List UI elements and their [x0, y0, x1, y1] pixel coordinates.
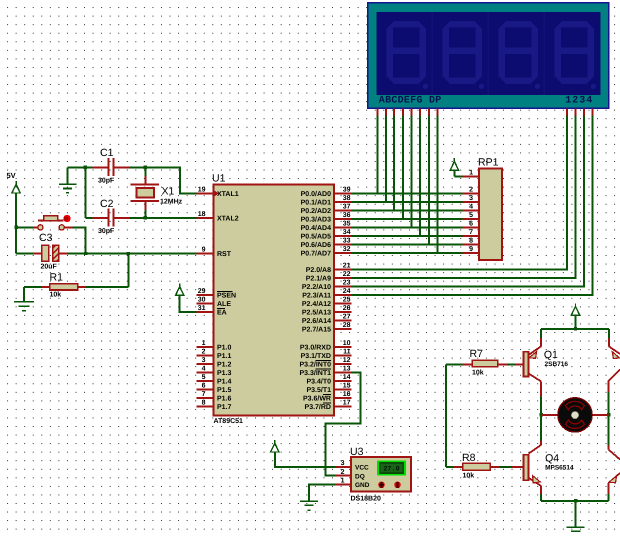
- svg-text:P1.2: P1.2: [217, 362, 232, 369]
- svg-text:RST: RST: [217, 251, 232, 258]
- wire 5V rail down: [15, 193, 17, 254]
- wire RST row: [16, 253, 33, 255]
- capacitor C2: [85, 217, 92, 219]
- RP1 pin 5: [462, 218, 479, 220]
- svg-text:13: 13: [343, 366, 351, 373]
- svg-text:1: 1: [341, 478, 345, 485]
- U1 pin 34 P0.5/AD5: [334, 235, 351, 237]
- U3 buttons: [378, 482, 385, 489]
- Q1 emitter arrow (PNP): [529, 352, 537, 359]
- svg-text:P3.1/TXD: P3.1/TXD: [301, 352, 331, 360]
- wire top rail: [541, 328, 609, 330]
- svg-text:X1: X1: [162, 186, 175, 198]
- U1 pin 38 P0.1/AD1: [334, 201, 351, 203]
- RP1 pin 3: [462, 201, 479, 203]
- svg-text:P1.6: P1.6: [217, 396, 232, 403]
- U1 pin 22 P2.1/A9: [334, 277, 351, 279]
- svg-text:21: 21: [343, 263, 351, 270]
- svg-text:20uF: 20uF: [41, 264, 58, 271]
- svg-text:R7: R7: [470, 348, 484, 360]
- svg-text:U3: U3: [350, 446, 364, 458]
- svg-text:P2.2/A10: P2.2/A10: [302, 283, 331, 291]
- svg-text:5: 5: [202, 374, 206, 381]
- svg-text:P3.0/RXD: P3.0/RXD: [300, 344, 331, 352]
- button SW row wire left: [16, 226, 33, 228]
- svg-text:R1: R1: [50, 272, 64, 284]
- svg-text:DQ: DQ: [355, 473, 365, 480]
- power arrow 5V: [12, 181, 20, 193]
- U1 pin 30 ALE: [196, 303, 213, 305]
- U1 pin 15 P3.5/T1: [334, 388, 351, 390]
- svg-text:EA: EA: [217, 310, 227, 317]
- wire EA to power: [180, 295, 197, 312]
- svg-text:4: 4: [469, 204, 473, 211]
- svg-text:P3.2/INT0: P3.2/INT0: [299, 361, 331, 369]
- wire P2.3 to digit 4: [351, 115, 592, 295]
- svg-text:32: 32: [343, 246, 351, 253]
- svg-text:22: 22: [343, 271, 351, 278]
- button terminals: [34, 226, 38, 228]
- svg-text:30pF: 30pF: [98, 228, 115, 235]
- transistor Q1 base bar: [524, 352, 529, 377]
- RP1 pin 1: [462, 176, 479, 178]
- wire button to RST row: [73, 227, 86, 253]
- svg-text:RP1: RP1: [478, 157, 499, 169]
- svg-text:GND: GND: [355, 482, 370, 489]
- display digits: [387, 21, 426, 84]
- svg-text:P1.4: P1.4: [217, 379, 232, 386]
- svg-text:27: 27: [343, 314, 351, 321]
- U1 pin 26 P2.5/A13: [334, 311, 351, 313]
- svg-text:2: 2: [341, 469, 345, 476]
- U1 pin 19 XTAL1: [196, 193, 213, 195]
- capacitor C1: [93, 166, 108, 168]
- power arrow for RP1: [450, 158, 458, 170]
- svg-text:19: 19: [198, 187, 206, 194]
- motor M1: [558, 398, 592, 432]
- svg-text:C1: C1: [100, 147, 114, 159]
- U1 pin 17 P3.7/RD: [334, 405, 351, 407]
- capacitor C3: [42, 245, 49, 261]
- U1 pin 29 PSEN: [196, 294, 213, 296]
- U1 pin 6 P1.5: [196, 388, 213, 390]
- U1 pin 37 P0.2/AD2: [334, 210, 351, 212]
- U3 DS18B20 body: [351, 457, 411, 492]
- U1 pin 39 P0.0/AD0: [334, 193, 351, 195]
- display LED1 7SEG-MPX4 frame: [368, 3, 609, 108]
- RP1 pin 6: [462, 227, 479, 229]
- svg-text:P0.6/AD6: P0.6/AD6: [301, 241, 331, 249]
- svg-text:12: 12: [343, 357, 351, 364]
- svg-text:37: 37: [343, 204, 351, 211]
- wire segment F to P0.5: [419, 115, 421, 237]
- RP1 pin 4: [462, 210, 479, 212]
- svg-text:9: 9: [202, 247, 206, 254]
- U1 pin 1 P1.0: [196, 346, 213, 348]
- svg-text:P2.7/A15: P2.7/A15: [302, 326, 331, 334]
- wire P0.2 row: [351, 210, 462, 212]
- svg-text:17: 17: [343, 400, 351, 407]
- svg-text:PSEN: PSEN: [217, 293, 236, 300]
- U1 pin 25 P2.4/A12: [334, 303, 351, 305]
- svg-text:18: 18: [198, 211, 206, 218]
- svg-text:MPS6514: MPS6514: [545, 465, 574, 472]
- crystal X1: [144, 167, 146, 176]
- svg-text:P0.2/AD2: P0.2/AD2: [301, 207, 331, 215]
- wire RP1 pin1 to power: [453, 170, 455, 176]
- RP1 pin 9: [462, 252, 479, 254]
- svg-text:P2.4/A12: P2.4/A12: [302, 300, 331, 308]
- svg-text:R8: R8: [462, 452, 476, 464]
- wire P0.6 row: [351, 244, 462, 246]
- U1 pin 5 P1.4: [196, 380, 213, 382]
- wire C1 row: [67, 166, 92, 168]
- U1 pin 2 P1.1: [196, 354, 213, 356]
- U1 pin 14 P3.4/T0: [334, 380, 351, 382]
- wire segment C to P0.2: [393, 115, 395, 211]
- resistor R1: [24, 286, 42, 288]
- wire power to top rail: [575, 315, 577, 329]
- svg-text:Q1: Q1: [544, 349, 558, 361]
- U1 pin 27 P2.6/A14: [334, 320, 351, 322]
- U1 pin 32 P0.7/AD7: [334, 252, 351, 254]
- wire segment DP to P0.7: [436, 115, 438, 254]
- svg-text:C3: C3: [39, 232, 53, 244]
- svg-text:30: 30: [198, 297, 206, 304]
- svg-text:14: 14: [343, 374, 351, 381]
- svg-text:25: 25: [343, 297, 351, 304]
- svg-text:7: 7: [202, 391, 206, 398]
- power arrow EA: [176, 284, 184, 296]
- resistor pack RP1 body: [479, 169, 502, 261]
- svg-text:P0.7/AD7: P0.7/AD7: [301, 250, 331, 258]
- RP1 pin 2: [462, 193, 479, 195]
- svg-text:P3.4/T0: P3.4/T0: [306, 378, 331, 386]
- button actuator: [38, 220, 63, 222]
- svg-text:P3.7/RD: P3.7/RD: [305, 403, 331, 411]
- svg-text:9: 9: [469, 246, 473, 253]
- U1 pin 16 P3.6/WR: [334, 397, 351, 399]
- svg-text:15: 15: [343, 383, 351, 390]
- svg-text:23: 23: [343, 280, 351, 287]
- svg-text:5: 5: [469, 212, 473, 219]
- svg-text:DS18B20: DS18B20: [351, 496, 381, 503]
- wire Q1 emitter: [540, 329, 542, 338]
- U3 LCD readout: [378, 461, 405, 474]
- svg-text:3: 3: [341, 460, 345, 467]
- svg-text:XTAL1: XTAL1: [217, 191, 239, 198]
- wire Q4 collector up to motor row: [540, 415, 542, 441]
- svg-text:4: 4: [202, 366, 206, 373]
- svg-text:P2.1/A9: P2.1/A9: [306, 275, 331, 283]
- svg-text:34: 34: [343, 229, 351, 236]
- ground bridge: [575, 501, 577, 527]
- svg-text:39: 39: [343, 187, 351, 194]
- wire segment D to P0.3: [402, 115, 404, 220]
- svg-text:P0.3/AD3: P0.3/AD3: [301, 216, 331, 224]
- svg-text:P1.7: P1.7: [217, 404, 232, 411]
- U1 pin 23 P2.2/A10: [334, 286, 351, 288]
- resistor R7: [446, 363, 462, 365]
- wire P3.3 to U3 DQ: [326, 372, 361, 475]
- svg-text:26: 26: [343, 305, 351, 312]
- svg-text:6: 6: [469, 221, 473, 228]
- svg-text:P2.6/A14: P2.6/A14: [302, 317, 331, 325]
- U1 pin 8 P1.7: [196, 405, 213, 407]
- wire P0.3 row: [351, 218, 462, 220]
- wire P0.0 row: [351, 193, 462, 195]
- svg-text:30pF: 30pF: [98, 178, 115, 185]
- U1 pin 4 P1.3: [196, 371, 213, 373]
- U1 pin 31 EA: [196, 311, 213, 313]
- svg-text:C2: C2: [100, 198, 114, 210]
- svg-text:6: 6: [202, 383, 206, 390]
- svg-text:P0.5/AD5: P0.5/AD5: [301, 233, 331, 241]
- svg-text:11: 11: [343, 349, 351, 356]
- display pins: [377, 109, 592, 116]
- svg-text:P1.5: P1.5: [217, 387, 232, 394]
- U1 pin 10 P3.0/RXD: [334, 346, 351, 348]
- svg-text:36: 36: [343, 212, 351, 219]
- U3 pins: [335, 466, 351, 468]
- RP1 pin 8: [462, 244, 479, 246]
- svg-text:38: 38: [343, 195, 351, 202]
- power arrow U3 VCC: [271, 440, 279, 452]
- ground below R1: [23, 287, 25, 302]
- svg-text:2SB716: 2SB716: [545, 361, 569, 368]
- U1 pin 13 P3.3/INT1: [334, 371, 351, 373]
- svg-text:1: 1: [469, 170, 473, 177]
- svg-text:10k: 10k: [50, 291, 62, 299]
- svg-text:P0.1/AD1: P0.1/AD1: [301, 199, 331, 207]
- U1 pin 3 P1.2: [196, 363, 213, 365]
- motor leads: [541, 414, 558, 416]
- wire U3 GND: [309, 484, 335, 501]
- U1 pin 33 P0.6/AD6: [334, 244, 351, 246]
- svg-text:28: 28: [343, 322, 351, 329]
- wire C1 to XTAL1: [130, 167, 197, 193]
- wire P2.2 to digit 3: [351, 115, 584, 286]
- Q3 emitter diag+arrow: [608, 473, 620, 483]
- svg-text:AT89C51: AT89C51: [214, 418, 244, 425]
- Q4 emitter arrow (NPN): [529, 478, 542, 486]
- svg-text:VCC: VCC: [355, 464, 369, 471]
- wire P2.0 to digit 1: [351, 115, 567, 269]
- svg-text:1234: 1234: [565, 96, 592, 107]
- svg-text:2: 2: [202, 349, 206, 356]
- U1 pin 18 XTAL2: [196, 217, 213, 219]
- U1 pin 21 P2.0/A8: [334, 269, 351, 271]
- svg-text:8: 8: [202, 400, 206, 407]
- power arrow bridge: [571, 303, 579, 315]
- svg-text:P0.4/AD4: P0.4/AD4: [301, 224, 331, 232]
- svg-text:7: 7: [469, 229, 473, 236]
- wire segment A to P0.0: [376, 115, 378, 194]
- svg-text:33: 33: [343, 238, 351, 245]
- wire segment G to P0.6: [428, 115, 430, 245]
- svg-text:P3.3/INT1: P3.3/INT1: [299, 369, 331, 377]
- svg-text:P3.5/T1: P3.5/T1: [306, 386, 331, 394]
- Q1 collector: [529, 374, 542, 382]
- wire ground link C1row-C2row: [84, 167, 86, 218]
- svg-text:P0.0/AD0: P0.0/AD0: [301, 190, 331, 198]
- svg-text:24: 24: [343, 288, 351, 295]
- resistor R8: [446, 466, 454, 468]
- wire P0.7 row: [351, 252, 462, 254]
- svg-text:12MHz: 12MHz: [160, 199, 183, 206]
- svg-text:10k: 10k: [472, 369, 484, 377]
- svg-text:XTAL2: XTAL2: [217, 216, 239, 223]
- U1 pin 9 RST: [196, 253, 213, 255]
- wire R7-R8 link: [445, 364, 447, 467]
- svg-text:P1.0: P1.0: [217, 345, 232, 352]
- wire P0.4 row: [351, 227, 462, 229]
- XTAL1 clock marker: [214, 191, 219, 197]
- svg-text:29: 29: [198, 288, 206, 295]
- U1 AT89C51 body: [214, 184, 335, 415]
- wire Q2 emitter (right top): [608, 329, 610, 338]
- svg-text:27.0: 27.0: [383, 466, 399, 474]
- svg-text:U1: U1: [212, 173, 226, 185]
- svg-text:31: 31: [198, 305, 206, 312]
- U1 pin 12 P3.2/INT0: [334, 363, 351, 365]
- transistor Q4 base bar: [524, 455, 529, 480]
- U1 pin 24 P2.3/A11: [334, 294, 351, 296]
- svg-text:P1.1: P1.1: [217, 353, 232, 360]
- svg-text:8: 8: [469, 238, 473, 245]
- svg-text:16: 16: [343, 391, 351, 398]
- U1 pin 35 P0.4/AD4: [334, 227, 351, 229]
- wire P0.5 row: [351, 235, 462, 237]
- svg-text:P3.6/WR: P3.6/WR: [303, 395, 331, 403]
- wire segment B to P0.1: [385, 115, 387, 203]
- svg-text:P2.3/A11: P2.3/A11: [302, 292, 331, 300]
- U1 pin 28 P2.7/A15: [334, 328, 351, 330]
- display interior: [376, 12, 600, 95]
- svg-text:3: 3: [469, 195, 473, 202]
- svg-text:ALE: ALE: [217, 301, 231, 308]
- wire bottom rail: [541, 500, 609, 502]
- wire segment E to P0.4: [410, 115, 412, 228]
- U1 pin 11 P3.1/TXD: [334, 354, 351, 356]
- ground U3: [300, 500, 318, 502]
- svg-text:3: 3: [202, 357, 206, 364]
- svg-text:P2.5/A13: P2.5/A13: [302, 309, 331, 317]
- wire right motor row to Q3: [608, 415, 610, 445]
- svg-text:35: 35: [343, 221, 351, 228]
- wire U3 VCC: [275, 452, 335, 467]
- RP1 pin 7: [462, 235, 479, 237]
- U1 pin 7 P1.6: [196, 397, 213, 399]
- svg-text:10: 10: [343, 340, 351, 347]
- Q2 collector diag: [609, 370, 620, 381]
- wire P0.1 row: [351, 201, 462, 203]
- svg-text:ABCDEFG DP: ABCDEFG DP: [379, 96, 442, 107]
- svg-text:P1.3: P1.3: [217, 370, 232, 377]
- svg-text:5V: 5V: [7, 171, 16, 180]
- svg-text:10k: 10k: [463, 472, 475, 480]
- ground left of C1: [66, 167, 68, 183]
- svg-text:1: 1: [202, 340, 206, 347]
- button red indicator dot: [63, 215, 70, 222]
- wire P2.1 to digit 2: [351, 115, 575, 278]
- svg-text:Q4: Q4: [545, 453, 559, 465]
- wire C2 to XTAL2: [130, 217, 197, 219]
- svg-text:P2.0/A8: P2.0/A8: [306, 266, 331, 274]
- svg-text:2: 2: [469, 187, 473, 194]
- U1 pin 36 P0.3/AD3: [334, 218, 351, 220]
